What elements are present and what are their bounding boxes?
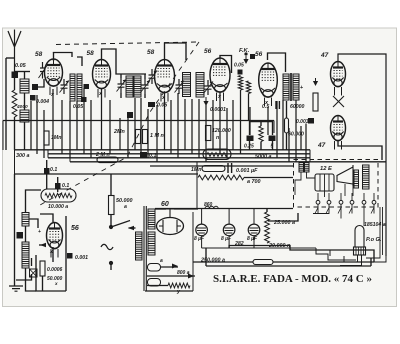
decoupler drops [249,141,251,150]
varcap V3 left [149,69,156,84]
RC unit 10000 [41,189,76,202]
svg-text:x: x [54,281,58,286]
V5 grid wire [268,53,286,72]
bus line B6 [15,173,199,175]
wire return line [206,265,371,267]
svg-text:0.003: 0.003 [296,119,309,125]
AVC arrow [205,97,207,104]
svg-text:1 M n: 1 M n [150,133,164,139]
wire osc to tube [29,219,38,228]
dashed box 12C [294,160,379,208]
capacitor black FK [238,70,243,75]
capacitor 0.001 uF [228,163,232,173]
hook wire above T1 [77,57,82,66]
bus line B4 [70,161,386,163]
wire 250000 [193,261,253,263]
resistor det vertical [40,261,45,276]
svg-text:0.001 µF: 0.001 µF [236,168,258,174]
PT secondary coil [148,209,155,229]
wire a700 to box [244,177,293,179]
PT primary coil [136,232,143,260]
oscillator coil lower [22,242,29,268]
bus line top y120 [3,120,274,122]
bus line B5 [150,165,293,167]
svg-text:0.004: 0.004 [36,99,49,105]
svg-text:+: + [38,229,41,235]
wire 20000 [229,246,374,256]
svg-text:800 a: 800 a [177,270,190,276]
resistor zig 2 [246,81,250,94]
capacitor C8a 8uF [196,224,208,236]
tube V4 56 [210,58,230,92]
resistor 25000 zig [265,212,270,243]
wire osc left [25,226,27,242]
RC unit box [203,149,231,160]
capacitor C8c 8uF [248,224,260,236]
speaker transformer [299,163,304,173]
IF transformer T3 left [183,73,191,97]
wire 25000 [266,209,268,213]
svg-text:300 a: 300 a [16,153,30,159]
IF transformer T3 right [196,73,204,98]
svg-text:5000 a: 5000 a [255,154,272,160]
AC symbol [101,244,113,249]
resistor 60000 pill [285,118,289,133]
wire rect top [155,208,166,210]
wire box right vertical [366,207,383,258]
capacitor 0.05 T1 [81,97,87,102]
capacitor X 0.0006 [30,269,38,277]
capacitor 0.1 osc1 [44,168,50,174]
PT heater loop 2 [148,279,161,287]
svg-text:0.05: 0.05 [157,103,167,109]
svg-text:56: 56 [71,225,79,232]
T4 core lines [289,73,291,101]
wire V6 top to right bus [338,54,386,256]
capacitor 0.06 black [250,54,255,59]
T1 varcap left [61,79,68,94]
wire 50000 [110,174,112,196]
svg-text:10.000 a: 10.000 a [48,204,68,210]
interstage transformer T4 [283,74,289,100]
resistor a700 zigzag [198,175,244,180]
resistor 50000 vertical [109,196,115,215]
svg-text:S.I.A.R.E. FADA - MOD. « 7: S.I.A.R.E. FADA - MOD. « 74 C » [213,274,372,285]
bus verticals [3,121,310,175]
left vertical wire [5,58,7,150]
svg-text:P.o G.: P.o G. [366,237,382,243]
T2 varcap left [118,78,125,93]
T3 varcap left [176,79,183,94]
wire antenna cap down [14,78,16,90]
svg-text:47: 47 [320,52,329,59]
F.K. terminal dots [244,52,247,55]
tube V6 47 [331,62,346,87]
tube V8 56 [47,223,63,249]
resistor 60000 wire [286,101,288,118]
pilot lamp [355,226,364,248]
resistor 1Mn left [44,131,49,145]
svg-text:0.05: 0.05 [234,63,244,69]
choke 860 [205,206,218,208]
tube V9 rectifier 60 [157,218,184,235]
HT line 860 [155,208,293,210]
tuning cap V1 left [40,62,45,79]
svg-text:2 M n: 2 M n [95,152,110,158]
svg-text:56: 56 [204,48,212,55]
power transformer core [143,206,145,291]
switch [109,225,113,229]
capacitor 0.05 antenna [12,72,19,79]
svg-text:a 700: a 700 [247,179,261,185]
svg-text:0.1: 0.1 [62,183,69,189]
svg-text:a: a [124,204,127,210]
svg-text:860: 860 [204,202,213,208]
oscillator coil upper [22,213,29,227]
wires osc caps [46,160,48,168]
svg-text:120.000: 120.000 [212,128,231,134]
capacitor 0.004 [30,95,36,101]
svg-text:1Mn: 1Mn [51,135,61,141]
capacitor 0.25 black [247,136,254,142]
wire V8 grid [40,214,53,222]
svg-text:0.0006: 0.0006 [47,267,63,273]
trimmer cap black [32,84,38,90]
PT primary arrow [129,227,136,229]
svg-text:56: 56 [255,51,263,58]
terminal strip dots [316,200,320,204]
V1 grid cap wire [54,53,73,58]
bus line B1 [15,149,311,151]
det circuit box wires [36,255,66,291]
svg-text:58: 58 [35,51,43,58]
wire drops from tubes to bus [31,88,306,162]
page background [3,28,397,307]
V3 grid cap wire [165,43,187,60]
wire coil to V1 grid [25,71,31,73]
svg-text:0.05: 0.05 [15,63,27,69]
svg-text:+: + [300,85,303,91]
box internal wires [295,172,353,197]
svg-text:4000: 4000 [16,104,28,110]
tube V5 56 [259,63,278,97]
resistor 2Mn vertical [136,130,141,144]
svg-text:1Mn: 1Mn [191,167,201,173]
antenna [8,30,21,72]
heater resistor y [168,283,190,288]
svg-text:n: n [216,135,219,141]
svg-text:12 E: 12 E [320,166,333,172]
voice coil right [354,170,359,188]
wires electrolytics [202,209,254,249]
decoupler frame [250,122,273,135]
ground left [9,286,23,291]
resistor pill 1Mn mid [202,166,225,172]
grid arrow 47 [315,78,317,84]
T3 varcap right [205,80,212,95]
tube V3 58 [155,60,175,93]
capacitor black below V2 [127,112,133,118]
phase cross X [333,96,344,107]
field coil [315,174,334,191]
capacitor 0.1 black mid [140,152,147,158]
capacitor 5 black [269,136,276,142]
vertical mid drops [193,162,356,291]
svg-text:60: 60 [161,201,169,208]
padder cap black [17,232,24,239]
heater line 1 [161,266,179,268]
IF transformer T1 [70,74,75,101]
svg-text:8 µF: 8 µF [221,236,232,242]
capacitor 0.05 below V3 [148,102,155,107]
svg-text:0.05: 0.05 [73,104,83,110]
svg-text:58: 58 [147,49,155,56]
resistor zig FK [238,76,242,91]
resistor center zig [259,126,263,142]
resistor 1Mn vertical [143,130,148,144]
resistor near 47 [313,93,318,111]
bottom bus det [145,290,193,292]
wire zig to bus [14,117,16,150]
tube V2 58 [93,60,111,89]
wire V7 bottom [338,141,382,161]
terminal splits Y [315,208,374,214]
bus line B3 [48,157,310,159]
V2 grid cap wire [102,49,117,60]
lamp loops [340,255,386,266]
wire coil links [24,72,26,80]
capacitor 0.001 det [67,253,73,259]
svg-text:0.1: 0.1 [50,167,57,173]
main left drop to ground [14,174,16,286]
svg-text:58: 58 [87,50,95,57]
svg-text:0.001: 0.001 [75,255,88,261]
antenna coil L1a [20,79,29,93]
svg-text:47: 47 [317,142,326,149]
resistor 4000 [12,90,17,117]
heater line 2 [147,275,195,277]
svg-text:a: a [160,258,163,264]
V8 cathode arrow [39,244,46,246]
svg-text:8 µF: 8 µF [247,236,258,242]
T1 trimmer black cap [84,84,90,89]
svg-text:0.1: 0.1 [149,153,157,159]
terminal drops [313,205,374,227]
T2 varcap right [142,79,149,94]
speaker cone [337,165,353,186]
svg-text:8 µF: 8 µF [194,236,205,242]
PT heater loop 1 [148,264,161,272]
svg-text:60000: 60000 [290,104,305,110]
resistor 120000 [206,126,211,141]
dashed gang line top [56,42,199,45]
bus line B2 [48,153,310,155]
dashed gang line diagonal [40,42,199,205]
resistor pill 2Mn [97,157,118,163]
tube V1 58 [45,59,63,86]
V4 grid wire [220,56,232,74]
capacitor C8b 8uF [223,224,235,236]
svg-text:2Mn: 2Mn [113,129,125,135]
IF transformer T2 coil [126,76,133,97]
svg-text:F.K.: F.K. [239,48,250,54]
tube V7 47 [331,116,346,141]
T2 frame wires [116,58,146,74]
resistor 250000 pill [253,260,273,265]
capacitor 0.1 osc2 [55,183,61,189]
antenna coil L1b [20,110,29,122]
